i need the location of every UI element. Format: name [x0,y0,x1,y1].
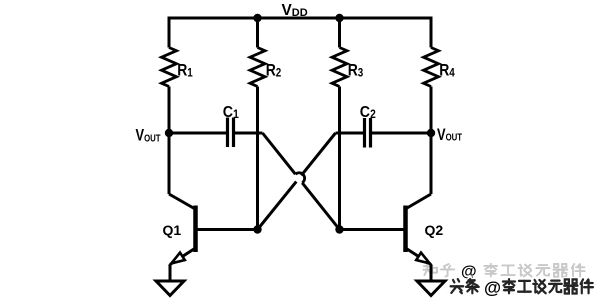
node: VDD junction dot left [253,14,261,22]
ground (left) [156,281,184,296]
VDD supply rail [169,18,431,48]
Q1 emitter arrowhead [171,253,185,264]
ground (right) [417,281,445,296]
Q2 emitter arrowhead [416,253,430,264]
resistor R3 [332,48,347,87]
VOUT right label [437,126,462,144]
node: VOUT left dot [165,129,173,137]
Q1 emitter diagonal [170,248,196,265]
transistor Q2 [340,194,444,265]
Q1 base bar [193,206,198,253]
node: VOUT right dot [427,129,435,137]
transistor Q1 [163,194,258,265]
wire hop arc [295,173,304,183]
wire: R2 bottom down to Q1 base junction [256,87,259,230]
wire: VOUT to C1 left plate [169,132,226,135]
watermark line 2 (white halo) [451,279,593,293]
resistor R1 [162,48,177,87]
resistor R2 [250,48,265,87]
node: Q1 base junction dot [253,225,261,233]
wire: R3 bottom down to Q2 base junction [338,87,341,230]
wire: cross diagonal C1 to Q2 base (with hop) [263,133,340,230]
Q1 collector diagonal [169,194,196,210]
svg-text:Q2: Q2 [425,222,444,238]
svg-text:Q1: Q1 [163,222,182,238]
wire: C1 right plate to cross start [235,132,263,135]
wire: C2 right plate to VOUT right [372,132,431,135]
wire: R4 bottom to Q2 collector [430,87,433,195]
Q2 base wire [340,228,406,231]
resistor R4 [424,48,439,87]
Q2 base bar [403,206,408,253]
watermark line 1 (gray) [423,264,584,277]
wire: Q1 emitter to ground [169,265,172,282]
VOUT left label [136,127,161,145]
watermark line 2 (dark) [451,279,593,293]
node: Q2 base junction dot [335,225,343,233]
wire: cross diagonal C2 to Q1 base [258,133,336,230]
wire: R1 bottom to Q1 collector [168,87,171,195]
Q2 collector diagonal [405,194,432,210]
Q1 base wire [196,228,258,231]
wire: Q2 emitter to ground [430,265,433,282]
node: VDD junction dot right [335,14,343,22]
svg-text:@: @ [484,278,501,298]
capacitor C2 [336,132,364,135]
Q2 emitter diagonal [406,248,432,265]
wire: rail stub to R2 [256,18,259,48]
wire: rail stub to R3 [338,18,341,48]
capacitor C1 [226,118,229,148]
